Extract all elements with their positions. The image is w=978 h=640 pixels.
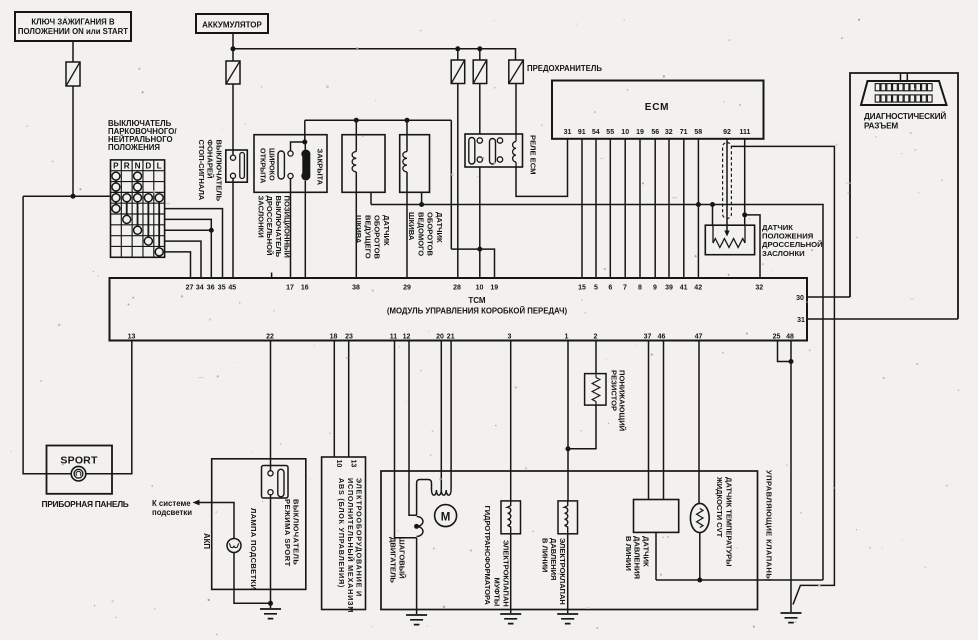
shield of TPS signal wire (dashed capsule) — [723, 143, 732, 219]
svg-text:17: 17 — [286, 285, 294, 292]
svg-text:ПОЛОЖЕНИИ ON или START: ПОЛОЖЕНИИ ON или START — [18, 27, 128, 36]
svg-text:16: 16 — [301, 285, 309, 292]
svg-text:36: 36 — [207, 285, 215, 292]
svg-text:38: 38 — [352, 285, 360, 292]
wire temperature sensor return — [699, 533, 701, 580]
svg-text:10: 10 — [476, 285, 484, 292]
svg-text:29: 29 — [403, 285, 411, 292]
svg-text:32: 32 — [755, 285, 763, 292]
svg-text:47: 47 — [695, 334, 703, 341]
wire sensor1 return — [370, 192, 372, 204]
svg-text:39: 39 — [665, 285, 673, 292]
svg-text:25: 25 — [773, 334, 781, 341]
wire TCM pin25 join pin48 — [778, 341, 792, 362]
node bus fuse2 — [477, 46, 482, 51]
wire shield drain to right side — [731, 146, 834, 604]
svg-text:6: 6 — [608, 285, 612, 292]
stepper motor M circle — [435, 505, 457, 527]
wire ignition fuse down — [72, 86, 74, 196]
wide-open contact — [291, 142, 305, 151]
svg-text:7: 7 — [623, 285, 627, 292]
fuse F3 (ПРЕДОХРАНИТЕЛЬ) — [509, 60, 524, 84]
node ignition feed junction — [71, 194, 76, 199]
svg-text:АККУМУЛЯТОР: АККУМУЛЯТОР — [202, 21, 262, 30]
wire sensor1 to TCM pin 38 — [355, 192, 357, 278]
svg-text:10: 10 — [335, 460, 342, 468]
stepper motor windings — [417, 480, 432, 516]
svg-text:ЗАСЛОНКИ: ЗАСЛОНКИ — [762, 249, 805, 258]
stop lamp switch box — [226, 150, 248, 182]
svg-text:31: 31 — [797, 317, 805, 324]
dropping resistor — [595, 341, 597, 374]
wires ECM pins to TCM pins 15 5 6 7 8 9 39 41 42 — [581, 139, 583, 278]
svg-text:D: D — [145, 162, 151, 171]
wire ECM pin31 to relay coil — [516, 139, 568, 197]
svg-text:20: 20 — [436, 334, 444, 341]
svg-text:34: 34 — [196, 285, 204, 292]
svg-text:19: 19 — [490, 285, 498, 292]
supply bus to switches and sensors — [305, 119, 452, 121]
ABS control unit box — [322, 457, 366, 610]
wires TCM pins 37 46 to line pressure sensor — [648, 341, 650, 500]
svg-text:27: 27 — [186, 285, 194, 292]
svg-text:ПОЛОЖЕНИЯ: ПОЛОЖЕНИЯ — [108, 143, 160, 152]
sport switch contacts — [262, 466, 289, 499]
wires TCM pins 20 21 to stepper motor — [440, 341, 442, 491]
driving pulley speed sensor box — [342, 135, 385, 193]
SPORT button — [71, 466, 86, 481]
sensor2 coil — [406, 120, 408, 151]
wire TCM pin3 to TC clutch solenoid — [510, 341, 512, 501]
wire battery down — [232, 33, 234, 61]
sensor1 coil — [355, 120, 357, 151]
svg-text:ШИРОКООТКРЫТА: ШИРОКООТКРЫТА — [259, 148, 277, 183]
svg-text:21: 21 — [447, 334, 455, 341]
svg-text:ШАГОВЫЙДВИГАТЕЛЬ: ШАГОВЫЙДВИГАТЕЛЬ — [389, 537, 407, 583]
svg-text:58: 58 — [694, 129, 702, 136]
node pin111 branch — [742, 212, 747, 217]
wire stepper motor to ground — [416, 538, 418, 614]
svg-text:91: 91 — [578, 129, 586, 136]
wire TPS left terminal to sensor ground bus — [712, 205, 714, 226]
svg-text:13: 13 — [128, 334, 136, 341]
unused pin stub on TCM top edge — [271, 273, 273, 279]
relay coil — [513, 142, 516, 162]
supply bus drop to relay output — [450, 120, 452, 249]
svg-text:45: 45 — [228, 285, 236, 292]
svg-text:ЛАМПА ПОДСВЕТКИ: ЛАМПА ПОДСВЕТКИ — [249, 508, 258, 590]
svg-text:ЗАКРЫТА: ЗАКРЫТА — [316, 149, 325, 186]
PNP switch contacts — [112, 172, 120, 180]
svg-text:5: 5 — [594, 285, 598, 292]
svg-text:13: 13 — [350, 460, 357, 468]
svg-text:R: R — [124, 162, 130, 171]
svg-text:9: 9 — [653, 285, 657, 292]
svg-text:P: P — [113, 162, 119, 171]
PNP switch internal wires — [116, 176, 159, 252]
svg-text:12: 12 — [403, 334, 411, 341]
svg-text:28: 28 — [453, 285, 461, 292]
closed contact (ЗАКРЫТА) — [304, 142, 306, 150]
TC clutch solenoid valve — [501, 501, 521, 534]
TPS potentiometer — [712, 225, 714, 243]
svg-text:10: 10 — [621, 129, 629, 136]
wires TCM pins 18 23 to ABS — [333, 341, 335, 458]
wire battery fuse to stop-lamp switch — [232, 84, 234, 155]
throttle position sensor box — [705, 225, 754, 255]
svg-text:N: N — [135, 162, 141, 171]
instrument panel SPORT button box — [47, 446, 113, 494]
SPORT mode switch box — [212, 459, 306, 590]
svg-text:11: 11 — [390, 334, 398, 341]
line pressure solenoid valve — [558, 501, 578, 534]
node bus fuse1 — [455, 46, 460, 51]
svg-text:ЕСМ: ЕСМ — [645, 102, 670, 113]
sensor ground bus — [371, 205, 823, 581]
svg-text:23: 23 — [345, 334, 353, 341]
svg-text:3: 3 — [508, 334, 512, 341]
wires PNP switch to TCM pins 35 36 34 27 — [165, 209, 223, 278]
svg-text:92: 92 — [723, 129, 731, 136]
wire TCM pin22 to sport switch — [270, 341, 272, 471]
wire battery bus — [233, 49, 516, 60]
wire stop lamp switch to TCM pin 45 — [232, 178, 234, 278]
svg-text:35: 35 — [218, 285, 226, 292]
diagnostic connector icon — [901, 73, 908, 82]
wire F2 to ECM relay — [479, 84, 481, 135]
wire sensor2 to TCM pin 29 — [406, 192, 408, 278]
transmission unit box — [381, 471, 758, 610]
node battery bus junction — [231, 46, 236, 51]
wire lamp to illumination system — [199, 503, 235, 539]
CVT fluid temperature sensor — [690, 503, 709, 532]
line pressure sensor box — [634, 500, 679, 533]
wire sport switch to ground — [270, 495, 272, 608]
illumination lamp — [227, 539, 241, 553]
fuse ignition — [66, 62, 80, 86]
svg-text:37: 37 — [644, 334, 652, 341]
svg-text:55: 55 — [606, 129, 614, 136]
battery box — [196, 14, 268, 33]
svg-text:15: 15 — [578, 285, 586, 292]
wire TCM pin30 to diagnostic connector — [807, 296, 850, 298]
wire into SPORT button — [47, 473, 72, 475]
relay ECM box — [465, 134, 523, 167]
svg-text:41: 41 — [680, 285, 688, 292]
svg-text:РЕЛЕ ЕСМ: РЕЛЕ ЕСМ — [529, 135, 538, 174]
svg-text:РАЗЪЕМ: РАЗЪЕМ — [864, 122, 898, 131]
wire left drop to instrument panel — [23, 196, 46, 474]
wire TCM pin11 to stepper motor — [395, 341, 417, 538]
svg-text:30: 30 — [796, 295, 804, 302]
svg-text:КЛЮЧ ЗАЖИГАНИЯ В: КЛЮЧ ЗАЖИГАНИЯ В — [31, 18, 115, 27]
svg-text:22: 22 — [266, 334, 274, 341]
wire lamp to ground junction — [234, 553, 271, 604]
svg-text:SPORT: SPORT — [60, 455, 98, 467]
svg-text:(МОДУЛЬ УПРАВЛЕНИЯ КОРОБКОЙ ПЕ: (МОДУЛЬ УПРАВЛЕНИЯ КОРОБКОЙ ПЕРЕДАЧ) — [387, 307, 568, 316]
svg-text:L: L — [157, 162, 162, 171]
TCM (transmission control module) box — [110, 278, 808, 341]
node sensor ground on pin58 wire — [696, 202, 701, 207]
svg-text:46: 46 — [658, 334, 666, 341]
svg-text:54: 54 — [592, 129, 600, 136]
wire open contact to TCM pin 17 — [290, 179, 292, 278]
wire ECM pin92 TPS wiper — [726, 139, 728, 232]
sensors return wire — [656, 579, 823, 581]
wire F1 to TCM pin 28 — [457, 84, 459, 279]
driven pulley speed sensor box — [400, 135, 430, 193]
wire closed contact to TCM pin 16 — [304, 181, 306, 278]
svg-text:ТСМ: ТСМ — [468, 296, 486, 305]
wire pressure solenoid to ground — [567, 534, 569, 613]
positional throttle switch box — [254, 135, 327, 193]
wire solenoid to ground — [510, 534, 512, 613]
diagnostic connector box — [850, 73, 958, 319]
op-amp ECM box — [552, 81, 764, 139]
wire TCM pin1 to line pressure solenoid — [567, 341, 569, 501]
wire sensor2 return — [421, 192, 423, 204]
svg-text:71: 71 — [680, 129, 688, 136]
svg-text:8: 8 — [638, 285, 642, 292]
wire TCM pin47 to temperature sensor — [698, 341, 700, 504]
svg-text:18: 18 — [330, 334, 338, 341]
svg-text:АКП: АКП — [202, 533, 211, 549]
svg-text:2: 2 — [594, 334, 598, 341]
wire TCM pin13 to instrument panel SPORT button — [86, 341, 132, 474]
node TPS on ground bus — [710, 202, 715, 207]
svg-text:подсветки: подсветки — [152, 508, 192, 517]
svg-text:111: 111 — [740, 129, 751, 136]
svg-text:19: 19 — [636, 129, 644, 136]
fuse battery — [226, 61, 240, 84]
fuse F2 — [479, 49, 481, 60]
wire ignition to fuse — [72, 41, 74, 62]
wire relay output to TCM pins 10 and 19 — [479, 167, 481, 278]
svg-text:К системе: К системе — [152, 499, 191, 508]
parking/neutral position switch grid — [111, 160, 165, 257]
wire ignition feed horizontal — [23, 195, 110, 197]
wire ECM pin111 down — [744, 139, 746, 225]
svg-text:31: 31 — [564, 129, 572, 136]
wire pressure sensor return — [655, 532, 657, 580]
svg-text:УПРАВЛЯЮЩИЕ КЛАПАНЫ: УПРАВЛЯЮЩИЕ КЛАПАНЫ — [765, 470, 774, 581]
svg-text:ПРИБОРНАЯ ПАНЕЛЬ: ПРИБОРНАЯ ПАНЕЛЬ — [42, 499, 129, 509]
wire pin111 branch to TCM pin 32 — [745, 215, 760, 278]
svg-text:56: 56 — [651, 129, 659, 136]
svg-text:ПРЕДОХРАНИТЕЛЬ: ПРЕДОХРАНИТЕЛЬ — [527, 64, 602, 73]
svg-text:42: 42 — [694, 285, 702, 292]
svg-text:32: 32 — [665, 129, 673, 136]
wire resistor to pin1 wire — [568, 405, 596, 449]
wire TCM pin48 to ground — [790, 341, 792, 613]
svg-text:1: 1 — [565, 334, 569, 341]
svg-text:М: М — [441, 512, 451, 524]
wire TCM pin31 to diagnostic connector — [807, 318, 958, 320]
fuse F1 — [457, 49, 459, 60]
svg-text:48: 48 — [786, 334, 794, 341]
ignition key box — [15, 12, 131, 41]
wire TCM pin12 to stepper motor — [409, 341, 417, 516]
wire F3 to ECM relay coil — [515, 84, 517, 135]
svg-text:ДИАГНОСТИЧЕСКИЙ: ДИАГНОСТИЧЕСКИЙ — [864, 110, 946, 121]
svg-text:ВЫКЛЮЧАТЕЛЬРЕЖИМА SPORT: ВЫКЛЮЧАТЕЛЬРЕЖИМА SPORT — [283, 499, 301, 567]
